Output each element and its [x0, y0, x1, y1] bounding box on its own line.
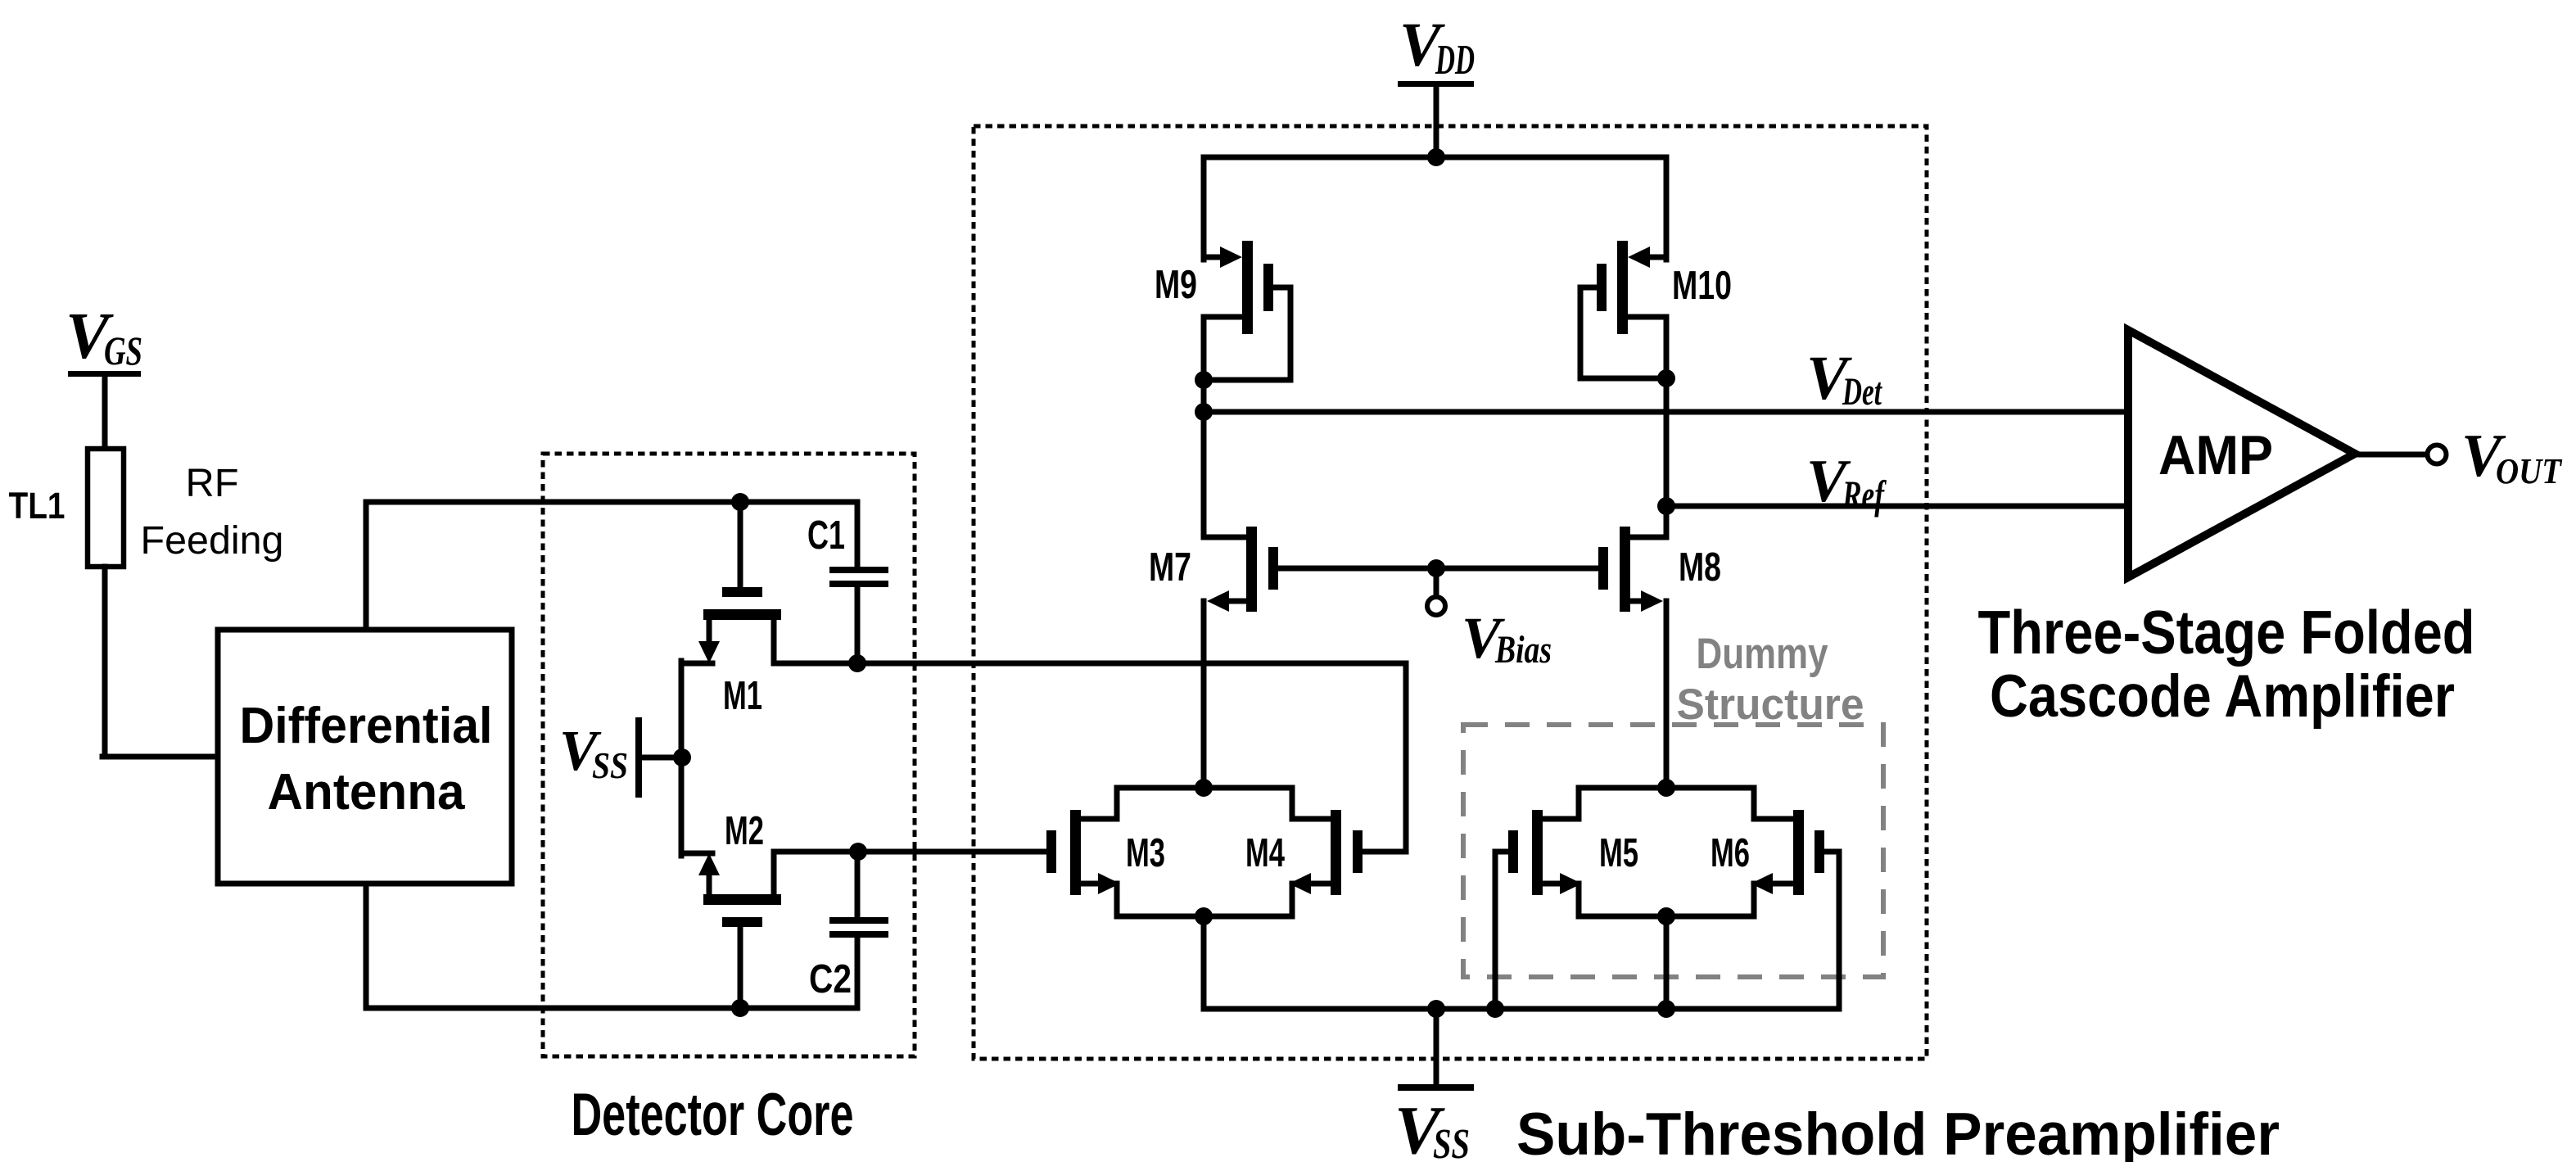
- svg-text:Differential: Differential: [240, 698, 493, 754]
- svg-text:C2: C2: [809, 957, 852, 1001]
- svg-text:Structure: Structure: [1677, 680, 1864, 729]
- svg-text:M8: M8: [1679, 545, 1721, 590]
- node VDD/top rail: [1427, 148, 1445, 166]
- svg-text:Cascode Amplifier: Cascode Amplifier: [1990, 663, 2455, 730]
- gray dashed box: Dummy Structure: [1463, 725, 1883, 977]
- node M7 drain to M3/M4 rail: [1195, 779, 1213, 797]
- wire TL1 to antenna: [102, 567, 108, 757]
- svg-text:SS: SS: [592, 745, 628, 786]
- svg-text:SS: SS: [1433, 1121, 1470, 1162]
- wire V_Ref: [1666, 504, 2128, 509]
- svg-text:M1: M1: [723, 674, 762, 718]
- transistor M10: [1649, 255, 1666, 260]
- wire V_Det: [1204, 409, 2128, 415]
- wire M3/M4 bottom rail: [1117, 914, 1292, 920]
- svg-text:Antenna: Antenna: [268, 764, 466, 821]
- wire V_Bias rail: [1278, 566, 1598, 572]
- wire M3/M4 top rail: [1117, 785, 1292, 791]
- wire M5/M6 bottom rail: [1579, 914, 1754, 920]
- svg-text:DD: DD: [1435, 37, 1475, 84]
- node bottom rail: [1195, 907, 1213, 925]
- svg-text:Three-Stage Folded: Three-Stage Folded: [1978, 598, 2475, 667]
- node VSS stem: [1427, 1000, 1445, 1018]
- transistor M7: [1201, 412, 1207, 537]
- svg-text:M9: M9: [1155, 263, 1197, 307]
- transistor M1: [738, 502, 743, 590]
- wire preamp bottom rail: [1204, 1006, 1839, 1012]
- transmission line TL1: [88, 449, 124, 567]
- wire M1 output to M4 gate: [857, 661, 1406, 667]
- transistor M2: [703, 894, 781, 905]
- wire M5/M6 top rail: [1579, 785, 1754, 791]
- svg-text:M5: M5: [1599, 831, 1638, 875]
- transistor M9: [1204, 255, 1223, 260]
- dotted box: Detector Core: [543, 454, 915, 1056]
- node V_Ref tap: [1657, 497, 1675, 515]
- svg-text:M2: M2: [725, 809, 764, 853]
- node M5 gate tie: [1486, 1000, 1504, 1018]
- transistor M8: [1664, 506, 1670, 537]
- transistor M3: [1070, 810, 1081, 895]
- node V_Bias: [1427, 559, 1445, 577]
- node M10 drain/gate: [1657, 369, 1675, 387]
- svg-text:GS: GS: [104, 328, 142, 373]
- wire top rail: [1204, 155, 1666, 161]
- svg-text:AMP: AMP: [2158, 424, 2273, 486]
- wire M1/M2 source common to VSS stub: [679, 661, 685, 856]
- block Differential Antenna: [218, 630, 512, 884]
- svg-text:Sub-Threshold Preamplifier: Sub-Threshold Preamplifier: [1516, 1101, 2280, 1162]
- supply symbol V_DD bar: [1398, 81, 1474, 87]
- wire antenna bottom to detector: [364, 884, 369, 1008]
- wire antenna top to detector: [364, 502, 369, 630]
- op-amp AMP triangle: [2128, 330, 2355, 577]
- wire VDD stem: [1434, 87, 1439, 157]
- svg-text:C1: C1: [807, 513, 845, 558]
- capacitor C1: [855, 502, 861, 569]
- node M9 drain/gate: [1195, 371, 1213, 389]
- VSS gate-bias stub: [635, 717, 642, 798]
- svg-text:M3: M3: [1126, 831, 1165, 875]
- wire M2 output to M3 gate: [858, 849, 1046, 855]
- svg-text:Feeding: Feeding: [141, 519, 284, 563]
- svg-text:M6: M6: [1711, 831, 1750, 875]
- wire AMP output: [2355, 452, 2427, 458]
- supply symbol V_GS bar: [68, 371, 141, 377]
- terminal V_OUT open circle: [2428, 445, 2447, 464]
- wire VGS bar to TL1: [102, 377, 108, 449]
- svg-text:RF: RF: [186, 462, 239, 505]
- transistor M4: [1331, 810, 1341, 895]
- node V_Det tap: [1195, 403, 1213, 421]
- svg-text:M4: M4: [1245, 831, 1285, 875]
- svg-text:Ref: Ref: [1842, 472, 1887, 518]
- svg-text:Detector Core: Detector Core: [572, 1082, 854, 1148]
- svg-text:M10: M10: [1672, 264, 1732, 308]
- transistor M5: [1532, 810, 1543, 895]
- node (M2 gate / bottom wire): [731, 999, 749, 1017]
- node top (M1 gate / C1): [731, 493, 749, 511]
- dotted box: Sub-Threshold Preamplifier: [974, 126, 1927, 1059]
- node M5/M6 source tie: [1657, 1000, 1675, 1018]
- svg-text:TL1: TL1: [9, 485, 66, 527]
- svg-text:Dummy: Dummy: [1697, 630, 1828, 678]
- transistor M6: [1793, 810, 1804, 895]
- svg-text:OUT: OUT: [2496, 451, 2563, 491]
- capacitor C2: [855, 852, 861, 920]
- node (M1 drain / C1): [848, 654, 866, 672]
- node bottom rail M5/M6: [1657, 907, 1675, 925]
- terminal V_Bias open circle: [1427, 597, 1445, 615]
- svg-text:Det: Det: [1842, 370, 1882, 414]
- node M8 source to M5/M6 rail: [1657, 779, 1675, 797]
- node (M2 drain / C2): [849, 843, 867, 861]
- ground V_SS symbol: [1434, 1009, 1439, 1087]
- svg-text:Bias: Bias: [1494, 628, 1552, 671]
- svg-text:M7: M7: [1149, 545, 1191, 590]
